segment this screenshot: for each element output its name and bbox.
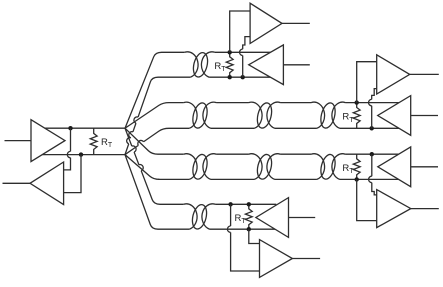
resistor RT5 (353, 154, 360, 179)
twisted pair 4 last segment wires (202, 204, 276, 229)
wire riser to U10 input B (with hop) (372, 154, 377, 195)
twisted pair 1 last segment wires (201, 52, 270, 77)
twisted pair 2 segment (267, 102, 325, 128)
wire lead pair2 A (125, 103, 169, 129)
op-amp U3 receiver (top transceiver) (250, 3, 282, 43)
junction dot riser (241, 75, 245, 79)
wire U7 output (410, 73, 439, 75)
junction dot bus A (68, 126, 72, 130)
twisted pair 2 segment (203, 102, 262, 128)
wire lead pair4 B (125, 155, 158, 230)
wire lead pair4 A (125, 128, 160, 204)
twisted pair 3 twist cap (184, 154, 197, 180)
op-amp U8 driver (right top transceiver) (378, 96, 411, 136)
wire U4 input (283, 64, 309, 66)
resistor RT1 (90, 128, 97, 154)
junction dot RT3 top (247, 202, 251, 206)
twisted pair 2 twist loop (255, 101, 274, 129)
wire riser to U3 input A (230, 11, 250, 52)
wire riser to U6 input B (with hop) (231, 204, 260, 271)
junction dot RT2 bottom (228, 75, 232, 79)
wire lead pair1 B (125, 77, 158, 154)
op-amp U9 driver (right bottom transceiver) (378, 147, 411, 187)
resistor RT3 (245, 204, 252, 229)
twisted pair 3 twist loop (255, 153, 274, 181)
wire bus B left (42, 154, 125, 156)
wire hop (no connection) (139, 165, 143, 171)
wire riser to U7 input B (with hop) (372, 89, 377, 129)
twisted pair 1 twist loop (191, 51, 210, 78)
op-amp U6 receiver (bottom transceiver) (260, 240, 293, 278)
op-amp U2 receiver (left transceiver) (30, 162, 64, 205)
wire U9 input (411, 166, 438, 168)
twisted pair 4 twist cap (184, 204, 197, 229)
wire lead pair3 A (125, 128, 158, 154)
wire lead pair1 A (125, 52, 162, 128)
resistor RT2 (226, 52, 233, 77)
wire U2 output (3, 182, 31, 184)
twisted pair 3 segment (203, 154, 262, 180)
wire U6 output (292, 258, 320, 260)
twisted pair 3 first segment wires (158, 154, 189, 179)
junction dot RT2 top (228, 50, 232, 54)
wire hop (no connection) (132, 146, 136, 152)
wire hop (no connection) (138, 140, 144, 145)
wire riser to U7 input A (357, 62, 377, 103)
op-amp U4 driver (top transceiver) (249, 45, 284, 85)
wire U3 output (282, 22, 310, 24)
wire riser to U10 input A (357, 179, 377, 220)
wire U10 output (411, 208, 439, 210)
junction dot RT5 bottom (355, 177, 359, 181)
twisted pair 4 twist loop (190, 203, 209, 230)
junction dot RT3 bottom (247, 227, 251, 231)
junction dot RT4 top (355, 100, 359, 104)
twisted pair 3 twist loop (319, 153, 338, 181)
op-amp U1 driver (left transceiver) (31, 120, 65, 162)
wire U5 input (289, 217, 316, 219)
junction dot riser (228, 202, 232, 206)
twisted pair 2 twist loop (190, 101, 209, 129)
wire lead pair2 B (125, 128, 169, 154)
wire hop (no connection) (129, 132, 133, 138)
twisted pair 2 twist cap (184, 102, 197, 128)
twisted pair 3 segment (267, 154, 325, 180)
wire bus A left (45, 127, 125, 129)
wire riser to U2 input B (64, 155, 81, 193)
wire hop (no connection) (127, 138, 131, 144)
wire riser to U6 input A (249, 229, 260, 243)
junction dot riser (370, 152, 374, 156)
wire hop (no connection) (134, 117, 138, 123)
op-amp U7 receiver (right top transceiver) (377, 55, 410, 94)
twisted pair 3 last segment wires (332, 154, 399, 180)
wire U8 input (411, 115, 438, 117)
op-amp U10 receiver (right bottom transceiver) (377, 190, 411, 228)
wire riser to U3 input B (with hop) (243, 37, 250, 78)
wire lead pair3 B (125, 155, 160, 180)
twisted pair 1 first segment wires (158, 52, 190, 77)
junction dot riser (370, 126, 374, 130)
wire riser to U2 input A (with hop) (64, 128, 71, 170)
junction dot bus B (79, 152, 83, 156)
op-amp U5 driver (bottom transceiver) (256, 198, 289, 238)
twisted pair 3 twist loop (191, 153, 210, 181)
twisted pair 2 last segment wires (332, 102, 399, 128)
resistor RT4 (353, 103, 360, 129)
wire U1 input (5, 140, 32, 142)
twisted pair 2 first segment wires (169, 103, 189, 129)
twisted pair 4 first segment wires (158, 204, 189, 229)
twisted pair 1 twist cap (185, 52, 198, 77)
twisted pair 2 twist loop (318, 101, 337, 129)
